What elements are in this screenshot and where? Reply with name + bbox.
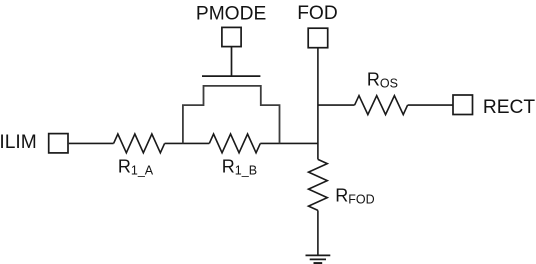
resistor R1_A [114,134,165,153]
svg-text:RECT: RECT [483,97,536,118]
wire FOD vertical to R_FOD [317,48,319,159]
svg-text:ILIM: ILIM [0,132,37,153]
terminal RECT [453,95,473,115]
wire ILIM to R1_A [69,142,114,144]
wire PMODE gate [231,47,233,77]
terminal PMODE [222,27,241,46]
svg-text:PMODE: PMODE [196,3,266,24]
ground [306,255,331,263]
wire R_FOD to ground [317,210,319,255]
svg-text:FOD: FOD [297,3,338,24]
resistor R_OS [355,96,408,115]
wire R1_A to R1_B [165,142,210,144]
wire R1_B to node [260,142,318,144]
resistor R1_B [209,134,260,153]
wire R_OS to RECT [408,104,453,106]
transistor Q1 channel and source/drain [183,86,280,143]
wire node to R_OS [318,104,355,106]
transistor Q1 gate bar [202,75,260,77]
resistor R_FOD [309,159,328,210]
terminal FOD [308,28,328,48]
terminal ILIM [49,134,68,153]
